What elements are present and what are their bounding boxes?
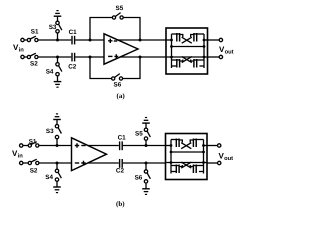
switch S3 (b) [56, 139, 58, 146]
ground below S4 (b) [53, 182, 61, 193]
svg-text:C2: C2 [116, 168, 125, 175]
switch S2 [27, 55, 30, 58]
ground below S4 [54, 77, 62, 88]
svg-text:S2: S2 [30, 61, 38, 68]
svg-text:S1: S1 [31, 28, 39, 35]
switch S5 (b, to ground up) [145, 140, 147, 145]
wire bottom rail (b) [23, 162, 166, 164]
output stub top (b) [207, 145, 218, 147]
switch S5 [112, 16, 115, 19]
svg-text:S6: S6 [135, 174, 143, 181]
node S3 junction (b) [56, 144, 59, 147]
svg-text:S1: S1 [29, 139, 37, 146]
capacitor C1 plates [71, 36, 73, 45]
capacitor C2 plates (b) [119, 159, 121, 168]
output terminal bottom (a) [219, 55, 222, 58]
output stub bottom (a) [208, 56, 220, 58]
ground above S3 (b) [53, 114, 61, 125]
output stub bottom (b) [207, 162, 218, 164]
switch S6 [112, 77, 115, 80]
svg-text:(b): (b) [116, 200, 125, 208]
node S3 junction (a) [56, 39, 59, 42]
node op-amp output top (a) [139, 39, 142, 42]
node op-amp output bottom (a) [139, 56, 142, 59]
feedback wire S5 (top) [90, 18, 140, 41]
node S6 junction (b) [145, 162, 148, 165]
svg-text:in: in [19, 47, 25, 54]
svg-text:(a): (a) [117, 92, 126, 100]
op-amp U1 [104, 34, 138, 64]
node op-amp input top (a) [89, 39, 92, 42]
node op-amp input bottom (a) [89, 56, 92, 59]
ground below S6 (b) [142, 184, 150, 195]
op-amp U3 [72, 138, 107, 171]
switch S1 [27, 38, 30, 41]
svg-text:S4: S4 [46, 69, 54, 76]
wire top rail (b) [23, 145, 166, 147]
terminal Vin+ (b) [20, 144, 23, 147]
output terminal bottom (b) [218, 161, 221, 164]
switch S6 (b, to ground down) [145, 163, 147, 170]
terminal Vin- (b) [20, 161, 23, 164]
svg-text:C1: C1 [69, 29, 78, 36]
svg-text:S5: S5 [116, 5, 124, 12]
terminal Vin- (a) [21, 55, 24, 58]
node S4 junction (a) [56, 56, 59, 59]
output terminal top (a) [219, 38, 222, 41]
svg-text:C2: C2 [68, 64, 77, 71]
wire top rail (a) [24, 39, 166, 41]
switch S3 (to ground, up) [57, 33, 59, 40]
latch U2 (a) [166, 28, 208, 74]
feedback wire S6 (bottom) [90, 57, 140, 79]
svg-text:in: in [18, 153, 24, 160]
switch S1 (b) [28, 144, 31, 147]
ground above S5 (b) [142, 118, 150, 129]
svg-text:out: out [225, 50, 234, 56]
svg-text:C1: C1 [118, 134, 127, 141]
svg-text:S3: S3 [49, 24, 57, 31]
op-amp U1 polarity marks [108, 39, 118, 59]
svg-text:S2: S2 [30, 167, 38, 174]
switch S2 (b) [28, 161, 31, 164]
capacitor C1 plates (b) [119, 141, 121, 150]
svg-text:S4: S4 [45, 174, 53, 181]
node S4 junction (b) [56, 162, 59, 165]
node S5 junction (b) [145, 144, 148, 147]
output terminal top (b) [218, 144, 221, 147]
terminal Vin+ (a) [21, 38, 24, 41]
wire bottom rail (a) [24, 56, 166, 58]
svg-text:S3: S3 [46, 128, 54, 135]
latch U4 (b) [166, 134, 208, 180]
svg-text:S5: S5 [135, 130, 143, 137]
svg-text:out: out [224, 156, 233, 162]
switch S4 (to ground, down) [57, 57, 59, 63]
output stub top (a) [208, 39, 220, 41]
svg-text:S6: S6 [114, 82, 122, 89]
ground above S3 [54, 11, 62, 22]
op-amp U3 polarity marks [75, 143, 86, 165]
capacitor C2 plates [71, 53, 73, 62]
switch S4 (b) [56, 163, 58, 169]
